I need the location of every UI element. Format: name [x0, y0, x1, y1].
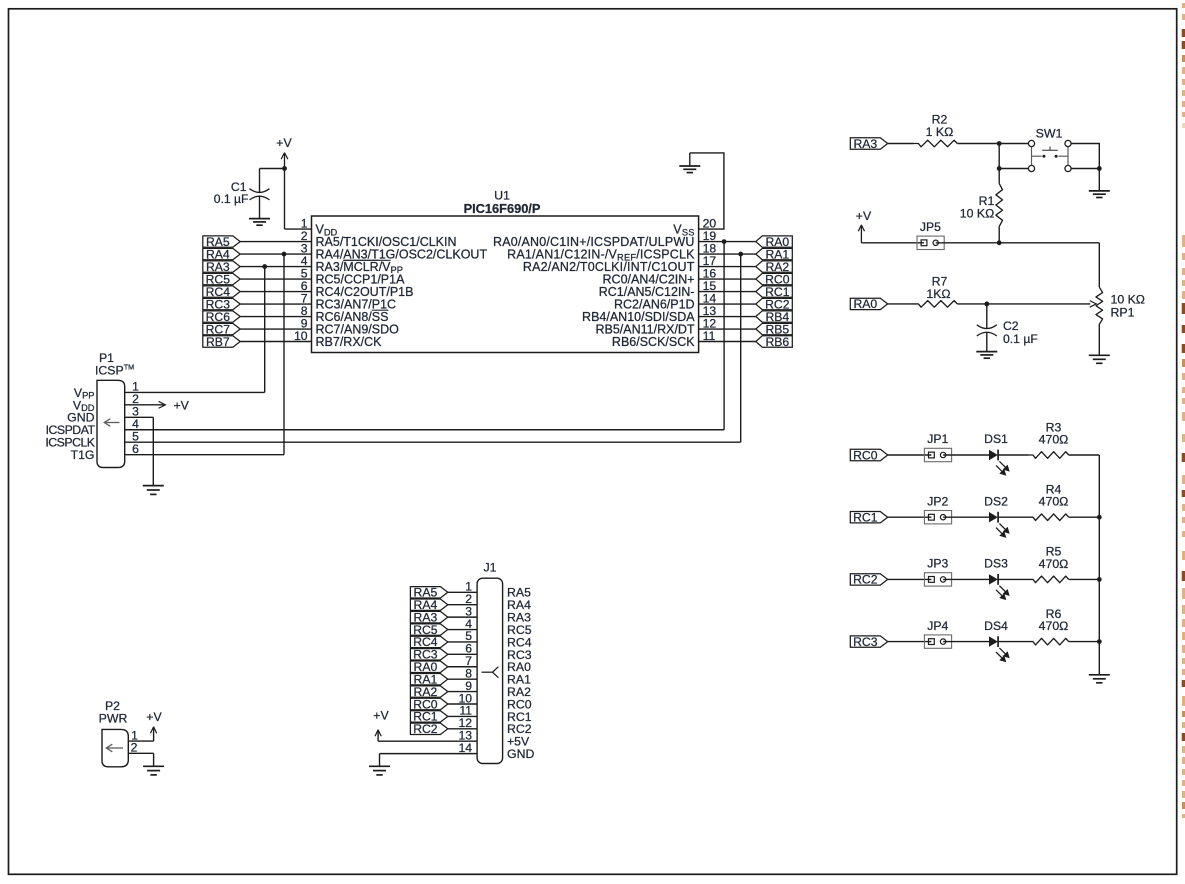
wire U1 to RA1: [699, 253, 756, 255]
node tag RB4 (U1 right): [756, 310, 793, 324]
node tag RC5 (J1): [410, 623, 447, 637]
wire RA5 to J1: [448, 591, 477, 593]
ground (C2): [976, 352, 997, 359]
wire U1 to RC2: [699, 303, 756, 305]
jumper JP1: [924, 432, 951, 461]
wire P1-1 VPP: [125, 391, 265, 393]
P1 pin 1 label: [74, 380, 139, 401]
U1 pin 17 label: [523, 254, 717, 274]
wire RC4 to J1: [448, 641, 477, 643]
svg-text:14: 14: [458, 741, 472, 755]
P1 pin 3 label: [67, 405, 139, 425]
U1 pin 15 label: [599, 279, 717, 299]
wire ICSPCLK vertical (pin18 to P1-5): [738, 252, 743, 443]
wire to C2: [986, 304, 988, 328]
node tag RA4 (U1 left): [203, 247, 240, 261]
svg-text:T1G: T1G: [71, 448, 95, 462]
wire RC4 to U1: [240, 291, 311, 293]
svg-text:RB7/RX/CK: RB7/RX/CK: [316, 335, 383, 349]
resistor R1 10K: [996, 169, 1003, 243]
resistor R6 470: [1029, 638, 1069, 645]
svg-text:RC0: RC0: [853, 448, 878, 462]
wire RA3 to R2: [888, 143, 914, 145]
connector J1 body with key: [477, 578, 503, 763]
wire VPP vertical (RA3 row to P1-1): [262, 264, 267, 392]
ground (P2): [143, 766, 164, 775]
ground (J1): [369, 766, 390, 775]
resistor R4 470: [1029, 514, 1069, 521]
node tag RA3 (J1): [410, 610, 447, 624]
svg-text:RC1: RC1: [853, 511, 878, 525]
wire JP5 to RP1 top: [936, 243, 1100, 287]
svg-text:GND: GND: [507, 747, 534, 761]
LED DS1: [984, 432, 1010, 476]
svg-text:+V: +V: [146, 710, 162, 724]
ground (VSS): [679, 166, 700, 173]
wire JP1 to DS1: [943, 454, 989, 456]
svg-text:6: 6: [132, 442, 139, 456]
node tag RC2 (LED row): [850, 573, 887, 587]
U1 pin 13 label: [582, 304, 716, 324]
U1 pin 19 label: [493, 229, 716, 249]
wire DS2 to R4: [998, 516, 1028, 518]
svg-text:DS3: DS3: [984, 557, 1008, 571]
wire RA3 to U1: [240, 266, 311, 268]
J1 pin 12 label: [458, 716, 531, 736]
node tag RC1 (LED row): [850, 511, 887, 525]
svg-text:SW1: SW1: [1036, 127, 1063, 141]
wire RA0 to R7: [888, 303, 914, 305]
ground (LED bus): [1089, 675, 1110, 683]
junction R2/SW1/R1 top: [997, 141, 1002, 146]
node tag RB7 (U1 left): [203, 335, 240, 349]
node tag RA1 (U1 right): [756, 247, 793, 261]
wire LED common bus: [1098, 455, 1100, 674]
wire P2 pin2 to ground: [128, 753, 153, 766]
wire VSS pin20 to ground: [690, 153, 724, 229]
svg-text:RB6/SCK/SCK: RB6/SCK/SCK: [612, 335, 695, 349]
wire JP2 to DS2: [943, 516, 989, 518]
U1 pin 12 label: [595, 316, 716, 336]
svg-text:DS2: DS2: [984, 494, 1008, 508]
svg-text:JP1: JP1: [927, 432, 948, 446]
wire ICSPDAT vertical (pin19 to P1-4): [722, 239, 727, 430]
svg-text:RA0: RA0: [853, 297, 877, 311]
node tag RC4 (J1): [410, 635, 447, 649]
J1 pin 7 label: [465, 654, 531, 674]
resistor R4 labels: [1039, 483, 1069, 509]
J1 pin 4 label: [465, 617, 532, 637]
wire RA3 to J1: [448, 616, 477, 618]
J1 pin 2 label: [465, 592, 531, 612]
wire RA4 to U1: [240, 253, 311, 255]
power +V (top, VDD rail): [276, 136, 292, 169]
power +V (JP5): [856, 209, 872, 243]
resistor R5 470: [1029, 576, 1069, 583]
node tag RA5 (U1 left): [203, 235, 240, 249]
connector J1 title: [484, 560, 497, 574]
svg-text:RB6: RB6: [765, 335, 789, 349]
J1 pin 14 label: [458, 741, 534, 761]
P1 pin 5 label: [45, 430, 139, 450]
wire VDD pin1 to +V rail: [285, 169, 312, 230]
J1 pin 13 label: [458, 729, 530, 749]
wire RC5 to U1: [240, 278, 311, 280]
wire RC3 to JP4: [888, 641, 932, 643]
LED DS4: [984, 619, 1010, 663]
wire R2 to SW1: [957, 143, 1028, 145]
wire +V to JP5: [861, 242, 924, 244]
P1 pin 6 label: [71, 442, 140, 462]
wire SW1 right to ground: [1071, 144, 1099, 169]
svg-text:0.1 µF: 0.1 µF: [214, 192, 249, 206]
node tag RC1 (J1): [410, 710, 447, 724]
svg-text:470Ω: 470Ω: [1039, 433, 1069, 447]
svg-text:+V: +V: [276, 136, 292, 150]
svg-text:+V: +V: [373, 709, 389, 723]
junction R7/C2: [984, 302, 989, 307]
svg-text:JP4: JP4: [927, 619, 948, 633]
IC U1 PIC16F690/P body: [312, 189, 699, 353]
U1 pin 5 label RC5: [301, 266, 405, 286]
connector P2 body: [102, 729, 128, 766]
svg-text:PWR: PWR: [99, 711, 128, 725]
resistor R6 labels: [1039, 607, 1069, 633]
node tag RC3 (LED row): [850, 635, 887, 649]
resistor R3 470: [1029, 452, 1069, 459]
LED DS2: [984, 494, 1010, 538]
node tag RC4 (U1 left): [203, 285, 240, 299]
ground (P1): [143, 486, 164, 495]
connector P2 PWR title: [99, 699, 128, 726]
svg-text:RA3: RA3: [853, 137, 877, 151]
wire RC1 to J1: [448, 715, 477, 717]
svg-text:1KΩ: 1KΩ: [926, 287, 950, 301]
wire T1G vertical (RA4 row to P1-6): [282, 252, 287, 455]
svg-text:10 KΩ: 10 KΩ: [1111, 293, 1146, 307]
node tag RA2 (U1 right): [756, 260, 793, 274]
wire U1 to RC0: [699, 278, 756, 280]
U1 pin 10 label RB7: [294, 329, 382, 349]
junction SW1 ground stem: [1097, 166, 1102, 190]
wire U1 to RC1: [699, 291, 756, 293]
resistor R2 labels: [926, 113, 954, 139]
wire DS1 to R3: [998, 454, 1028, 456]
svg-text:470Ω: 470Ω: [1039, 619, 1069, 633]
clipped text column (right page edge): [1182, 3, 1185, 818]
J1 pin 5 label: [465, 629, 532, 649]
U1 pin 14 label: [614, 291, 716, 311]
node tag RC7 (U1 left): [203, 322, 240, 336]
svg-text:DS1: DS1: [984, 432, 1008, 446]
node tag RA0 (U1 right): [756, 235, 793, 249]
wire R5 to LED bus junction: [1069, 577, 1102, 582]
U1 pin 11 label: [612, 329, 716, 349]
U1 pin 20 label: [673, 217, 716, 238]
svg-text:RB7: RB7: [206, 335, 230, 349]
U1 pin 4 label RA3: [301, 254, 403, 275]
wire R6 to LED bus junction: [1069, 639, 1102, 644]
svg-text:JP5: JP5: [920, 220, 941, 234]
junction R1 top: [997, 166, 1002, 171]
wire RA4 to J1: [448, 604, 477, 606]
J1 pin 10 label: [458, 691, 531, 711]
node tag RA0 (J1): [410, 660, 447, 674]
wire U1 to RA0: [699, 241, 756, 243]
U1 pin 8 label RC6: [301, 304, 389, 324]
wire RA5 to U1: [240, 241, 311, 243]
switch SW1 pushbutton: [1028, 127, 1071, 172]
wire P1-3 GND: [125, 417, 154, 485]
power +V (J1 +5V pin13): [373, 709, 477, 742]
J1 pin 9 label: [465, 679, 531, 699]
node tag RB5 (U1 right): [756, 322, 793, 336]
wire RB7 to U1: [240, 341, 311, 343]
J1 pin 11 label: [459, 704, 531, 724]
svg-text:470Ω: 470Ω: [1039, 557, 1069, 571]
wire +V to C1: [260, 169, 285, 193]
power +V (P2 pin1): [128, 710, 162, 741]
svg-text:PIC16F690/P: PIC16F690/P: [464, 201, 541, 216]
svg-text:RP1: RP1: [1111, 306, 1135, 320]
svg-text:RC2: RC2: [413, 722, 438, 736]
svg-text:JP2: JP2: [927, 494, 948, 508]
node tag RC1 (U1 right): [756, 285, 793, 299]
wire DS4 to R6: [998, 641, 1028, 643]
junction R1 bottom / JP5 rail: [997, 240, 1002, 245]
wire RC7 to U1: [240, 328, 311, 330]
node tag RC5 (U1 left): [203, 272, 240, 286]
wire P1-5 ICSPCLK: [125, 441, 741, 443]
wire RA2 to J1: [448, 691, 477, 693]
svg-text:470Ω: 470Ω: [1039, 495, 1069, 509]
svg-text:0.1 µF: 0.1 µF: [1003, 332, 1038, 346]
node tag RC2 (J1): [410, 722, 447, 736]
resistor R2 1K: [914, 140, 958, 147]
svg-text:RC3: RC3: [853, 635, 878, 649]
capacitor C2 0.1uF: [977, 319, 1038, 351]
node tag RA3 (U1 left): [203, 260, 240, 274]
resistor R7 labels: [926, 275, 950, 301]
wire RA1 to J1: [448, 678, 477, 680]
wire P1-6 T1G: [125, 454, 284, 456]
jumper JP3: [924, 557, 951, 587]
svg-text:10 KΩ: 10 KΩ: [960, 206, 995, 220]
node tag RA2 (J1): [410, 685, 447, 699]
resistor R1 labels: [960, 194, 995, 220]
ground (C1): [249, 219, 270, 226]
ground (RP1): [1089, 355, 1110, 363]
P1 pin 4 label: [46, 417, 140, 437]
node tag RA3 (switch input): [850, 137, 887, 151]
node tag RC6 (U1 left): [203, 310, 240, 324]
power +V (P1 VDD): [125, 398, 190, 412]
U1 pin 2 label RA5: [301, 229, 457, 249]
U1 pin 7 label RC3: [301, 291, 396, 311]
wire RA0 to J1: [448, 666, 477, 668]
J1 pin 8 label: [465, 666, 531, 686]
wire U1 to RB4: [699, 316, 756, 318]
wire RC0 to J1: [448, 703, 477, 705]
wire R7 to RP1 wiper arrow: [957, 301, 1096, 308]
svg-text:+V: +V: [174, 398, 190, 412]
jumper JP4: [924, 619, 951, 649]
svg-text:1 KΩ: 1 KΩ: [926, 125, 954, 139]
wire DS3 to R5: [998, 578, 1028, 580]
connector P1 ICSP title: [95, 351, 134, 378]
wire U1 to RB5: [699, 328, 756, 330]
node tag RC0 (U1 right): [756, 272, 793, 286]
wire R3 to LED bus: [1069, 454, 1100, 456]
potentiometer RP1 10K: [1096, 287, 1145, 355]
wire RC5 to J1: [448, 629, 477, 631]
wire RC0 to JP1: [888, 454, 932, 456]
J1 pin 6 label: [465, 642, 532, 662]
jumper JP5: [917, 220, 944, 250]
U1 pin 1 label V: [301, 217, 338, 238]
svg-text:DS4: DS4: [984, 619, 1008, 633]
J1 pin 3 label: [465, 604, 531, 624]
wire J1 pin14 GND: [380, 754, 478, 766]
wire JP3 to DS3: [943, 578, 989, 580]
capacitor C1 0.1uF: [214, 180, 270, 218]
svg-text:+V: +V: [856, 209, 872, 223]
resistor R7 1K: [914, 301, 958, 308]
wire U1 to RB6: [699, 341, 756, 343]
junction +V/C1: [282, 166, 287, 171]
U1 pin 9 label RC7: [301, 316, 399, 336]
U1 pin 16 label: [603, 266, 717, 286]
node tag RC2 (U1 right): [756, 297, 793, 311]
node tag RA4 (J1): [410, 598, 447, 612]
wire RC2 to J1: [448, 728, 477, 730]
U1 pin 3 label RA4: [301, 241, 488, 261]
node tag RC0 (LED row): [850, 448, 887, 462]
resistor R5 labels: [1039, 545, 1069, 571]
svg-text:JP3: JP3: [927, 557, 948, 571]
wire RC1 to JP2: [888, 516, 932, 518]
wire SW1 lower-left loop: [999, 144, 1028, 169]
svg-text:J1: J1: [484, 560, 497, 574]
wire R4 to LED bus junction: [1069, 515, 1102, 520]
svg-text:RC2: RC2: [853, 573, 878, 587]
node tag RC3 (J1): [410, 648, 447, 662]
node tag RB6 (U1 right): [756, 335, 793, 349]
wire RC3 to U1: [240, 303, 311, 305]
wire JP4 to DS4: [943, 641, 989, 643]
resistor R3 labels: [1039, 420, 1069, 446]
wire U1 to RA2: [699, 266, 756, 268]
wire RC6 to U1: [240, 316, 311, 318]
wire P1-4 ICSPDAT: [125, 429, 724, 431]
P1 pin 2 label: [73, 392, 139, 413]
wire RC3 to J1: [448, 653, 477, 655]
node tag RA5 (J1): [410, 586, 447, 600]
node tag RA0 (pot input): [850, 297, 887, 311]
P2 pin numbers: [131, 728, 139, 754]
connector P1 body: [97, 380, 125, 467]
node tag RA1 (J1): [410, 672, 447, 686]
jumper JP2: [924, 494, 951, 524]
LED DS3: [984, 557, 1010, 601]
J1 pin 1 label: [465, 580, 531, 600]
node tag RC0 (J1): [410, 697, 447, 711]
ground (SW1): [1089, 191, 1110, 198]
node tag RC3 (U1 left): [203, 297, 240, 311]
U1 pin 6 label RC4: [301, 279, 414, 299]
U1 pin 18 label: [507, 241, 716, 262]
wire RC2 to JP3: [888, 578, 932, 580]
